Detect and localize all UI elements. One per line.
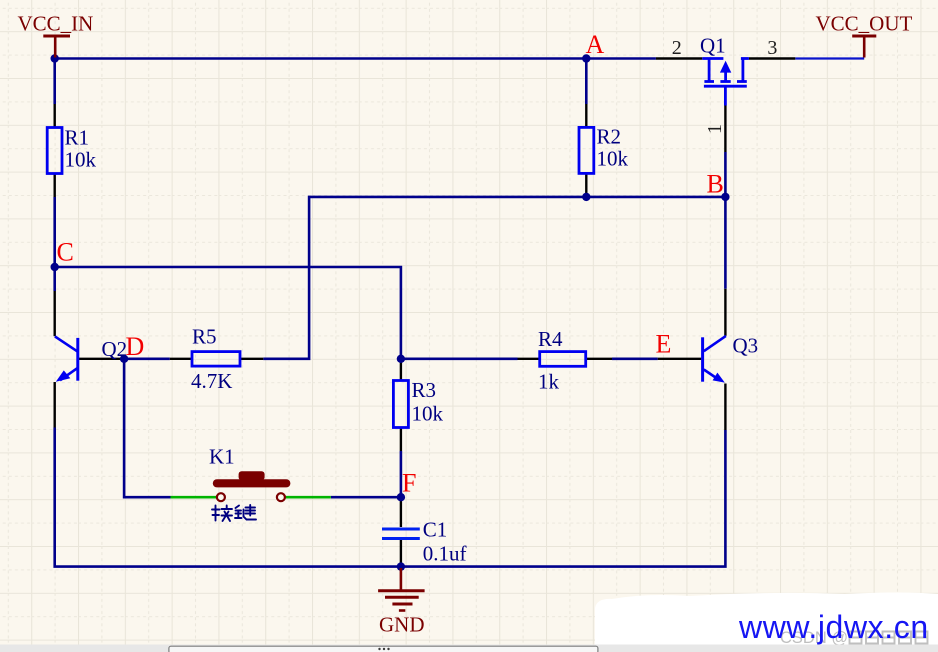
pin R4 left <box>518 358 540 360</box>
pin R1 top <box>54 104 56 128</box>
wire R1 bottom to node C <box>53 197 56 267</box>
pin Q3 emitter <box>724 384 726 431</box>
pin R1 bottom <box>54 174 56 198</box>
svg-text:R3: R3 <box>412 378 437 402</box>
svg-text:GND: GND <box>379 613 425 637</box>
wire green K1 left stub <box>171 496 217 499</box>
pin Q2 emitter <box>54 382 56 428</box>
svg-text:D: D <box>126 332 145 361</box>
pin R4 right <box>586 358 612 360</box>
svg-text:4.7K: 4.7K <box>191 369 232 393</box>
pin Q2 base <box>79 358 123 360</box>
junction node D <box>120 355 128 363</box>
svg-text:K1: K1 <box>209 445 235 469</box>
power VCC_OUT <box>852 36 876 58</box>
svg-text:VCC_IN: VCC_IN <box>18 12 94 36</box>
wire node A down to R2 <box>585 59 588 105</box>
junction R2 bottom <box>582 193 590 201</box>
svg-text:Q1: Q1 <box>700 33 726 57</box>
svg-text:1k: 1k <box>538 370 560 394</box>
pin R2 top <box>585 104 587 127</box>
wire Q1 gate to node B <box>724 152 727 197</box>
svg-text:10k: 10k <box>65 148 97 172</box>
junction node B <box>721 193 729 201</box>
wire Q1 pin3 to VCC_OUT <box>795 57 864 59</box>
svg-text:B: B <box>707 170 724 199</box>
svg-text:www.jdwx.cn: www.jdwx.cn <box>738 609 929 645</box>
pin C1 bottom <box>400 540 402 565</box>
wire R5 right to node B rail <box>263 197 725 359</box>
svg-text:10k: 10k <box>597 147 629 171</box>
svg-text:R1: R1 <box>65 126 90 150</box>
transistor Q3 <box>703 336 726 383</box>
mosfet Q1 <box>702 59 749 106</box>
resistor R4 <box>540 352 586 367</box>
pin R3 top <box>400 359 402 381</box>
bottom bar <box>0 645 938 652</box>
wire R3 junction to R4 left pin <box>401 357 518 360</box>
wire VCC_IN down to R1 <box>53 59 56 105</box>
wire node B down to Q3 collector pin <box>724 197 727 289</box>
junction node C <box>51 263 59 271</box>
svg-text:R5: R5 <box>192 325 217 349</box>
pin Q2 collector <box>54 291 56 336</box>
svg-text:Q3: Q3 <box>733 334 759 358</box>
junction R3 top <box>397 355 405 363</box>
svg-text:E: E <box>656 330 672 359</box>
junction node A <box>582 54 590 62</box>
wire node C rail to R3 junction <box>55 267 401 359</box>
switch K1 <box>213 471 291 501</box>
capacitor C1 <box>382 529 420 539</box>
pin Q1 pin1 gate <box>724 106 726 153</box>
svg-text:C1: C1 <box>423 517 448 541</box>
svg-text:1: 1 <box>704 124 726 134</box>
svg-text:C: C <box>57 238 74 267</box>
pin Q1 pin3 <box>749 57 795 59</box>
wire node C down to Q2 collector pin <box>53 267 56 291</box>
resistor R5 <box>192 352 240 367</box>
junction VCC_IN tap <box>51 54 59 62</box>
wire bottom rail (Q2 emitter to Q3 emitter) <box>55 428 726 567</box>
wire R3 bottom to node F <box>400 451 403 497</box>
svg-text:Q2: Q2 <box>102 337 128 361</box>
pin R3 bottom <box>400 428 402 452</box>
resistor R1 <box>47 128 62 174</box>
svg-text:R4: R4 <box>538 327 563 351</box>
transistor Q2 <box>55 336 78 381</box>
svg-text:R2: R2 <box>597 125 622 149</box>
ground <box>378 568 425 611</box>
white watermark patch <box>595 593 938 647</box>
svg-text:2: 2 <box>672 37 682 59</box>
svg-text:3: 3 <box>767 37 777 59</box>
power VCC_IN <box>43 36 70 58</box>
pin R2 bottom <box>585 173 587 197</box>
wire node D down and right to K1 <box>124 359 170 497</box>
wire top rail from VCC_IN junction to Q1 pin2 <box>55 57 656 60</box>
svg-text:0.1uf: 0.1uf <box>423 542 467 566</box>
pin R5 right <box>240 358 263 360</box>
watermark CSDN gray <box>780 629 928 647</box>
junction node F <box>397 493 405 501</box>
pin Q1 pin2 <box>656 57 702 59</box>
pin C1 top <box>400 497 402 527</box>
svg-text:A: A <box>586 30 605 59</box>
wire K1 right to node F <box>331 496 401 499</box>
wire green K1 right stub <box>285 496 331 499</box>
pin Q3 collector <box>724 289 726 336</box>
value K1 anjian chinese <box>212 505 256 521</box>
junction GND tap <box>397 562 405 570</box>
svg-text:F: F <box>402 469 416 498</box>
wire node D to R5 left pin <box>124 357 170 360</box>
pin R5 left <box>170 358 192 360</box>
wire R4 right to Q3 base pin <box>612 357 658 360</box>
resistor R2 <box>579 127 594 173</box>
pin Q3 base <box>658 358 702 360</box>
svg-text:10k: 10k <box>412 402 444 426</box>
resistor R3 <box>393 381 408 428</box>
svg-text:VCC_OUT: VCC_OUT <box>816 12 913 36</box>
